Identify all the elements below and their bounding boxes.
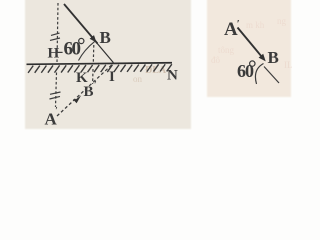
svg-text:B: B [100, 28, 111, 47]
svg-text:60: 60 [64, 39, 81, 60]
svg-text:B: B [84, 84, 94, 100]
svg-text:′: ′ [55, 106, 58, 116]
svg-text:tông: tông [218, 45, 235, 55]
svg-text:I: I [109, 69, 115, 85]
svg-text:′: ′ [237, 18, 240, 30]
svg-text:ng: ng [277, 16, 287, 26]
svg-text:m kh: m kh [246, 20, 265, 30]
svg-text:B: B [268, 48, 279, 67]
svg-text:N: N [167, 68, 178, 84]
svg-text:đô: đô [211, 55, 221, 65]
svg-text:′: ′ [94, 80, 97, 91]
svg-text:H: H [48, 46, 60, 62]
svg-text:60: 60 [237, 61, 254, 81]
svg-text:on: on [133, 74, 143, 84]
svg-text:IL: IL [284, 60, 293, 70]
